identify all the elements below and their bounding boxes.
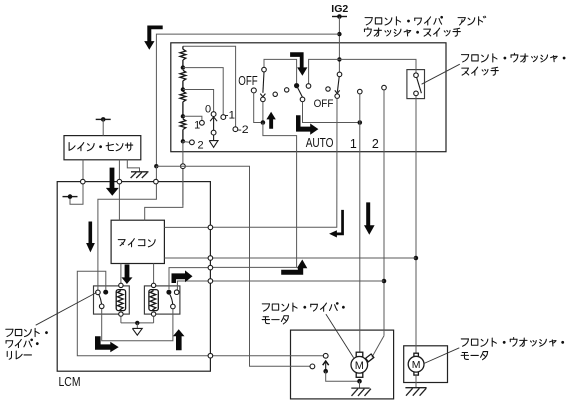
- wire micro to coil1: [120, 264, 122, 284]
- contact washer top: [414, 73, 419, 78]
- microcomputer box: [111, 220, 164, 263]
- front wiper motor box: [291, 330, 394, 399]
- contact speed 2: [382, 85, 387, 90]
- svg-text:-2: -2: [238, 124, 249, 136]
- contact washer bottom: [414, 91, 419, 96]
- flow arrow A11 right-up (to micro): [281, 260, 307, 275]
- svg-text:IG2: IG2: [331, 4, 348, 15]
- contact -2: [233, 127, 238, 132]
- wire sw1 lower to node: [262, 102, 264, 123]
- wiper motor M1 brush top: [356, 352, 363, 356]
- svg-text:M: M: [412, 359, 421, 371]
- label front wiper motor label line2: [262, 316, 288, 324]
- rain sensor antenna bar: [96, 118, 111, 120]
- ground washer motor: [405, 388, 426, 396]
- relay K1 contact NC: [96, 290, 101, 295]
- label front washer switch label line1: [461, 53, 565, 62]
- arrowhead sw3 arm: [335, 90, 340, 93]
- pin LCM right 4: [208, 279, 213, 284]
- relay K1 coil top pin: [119, 283, 123, 287]
- svg-text:0: 0: [205, 104, 211, 116]
- wire resistor net to micro: [145, 166, 183, 220]
- arrowhead park arm: [323, 361, 329, 365]
- label front wiper and washer switch (line1a): [365, 16, 442, 25]
- wire arm to out arrow: [213, 135, 215, 140]
- wire rain/IG net right: [156, 166, 310, 366]
- resistor section 2: [180, 70, 186, 81]
- contact park B: [310, 364, 315, 369]
- wire relay1 pivot to out pin: [77, 271, 323, 355]
- contact -1: [221, 115, 226, 120]
- wire volume arm: [213, 117, 215, 131]
- wire res s1: [182, 46, 184, 49]
- label front wiper and washer switch (line2): [364, 27, 460, 36]
- washer motor M2 body: [408, 356, 424, 372]
- svg-text:2: 2: [197, 139, 203, 151]
- wire relay2 NO to pin and speed2: [177, 281, 384, 290]
- switch arm sw2: [297, 86, 303, 98]
- arrowhead volume arm: [210, 117, 217, 121]
- label rain sensor label: [69, 143, 133, 151]
- ground wiper motor: [351, 388, 371, 396]
- relay K1 coil bottom pin: [119, 312, 123, 316]
- wire rain ground leg: [127, 160, 139, 172]
- wire micro to coil2: [153, 264, 155, 284]
- pin LCM right 5: [208, 353, 213, 358]
- svg-text:LCM: LCM: [59, 375, 81, 389]
- switch arm sw3: [337, 77, 339, 92]
- contact volume arm: [211, 130, 216, 135]
- wire tap3 to 1 contact: [183, 116, 202, 120]
- wire relay2 pivot to pin: [169, 268, 210, 290]
- IG2 terminal dot: [337, 14, 342, 19]
- label front washer switch label line2: [462, 67, 499, 75]
- label front wiper relay label line3: [7, 351, 31, 359]
- node res tap4: [181, 139, 185, 143]
- relay K2 arm: [170, 295, 173, 305]
- wiper motor M1 body: [351, 357, 368, 374]
- front washer switch box: [407, 70, 425, 99]
- node park common: [323, 369, 328, 374]
- ground rain sensor: [131, 172, 149, 178]
- wire micro out2 (washer sense): [164, 257, 416, 259]
- resistor section 3: [180, 91, 186, 102]
- wire IG2 down: [338, 17, 340, 73]
- wire resistor bottom out: [182, 141, 184, 205]
- wiper motor M1 brush high: [366, 354, 374, 362]
- wire coil2 bottom: [153, 316, 155, 323]
- shield terminal bar: [63, 196, 78, 198]
- IG2 terminal bar: [332, 16, 347, 18]
- relay K2 common contact: [171, 304, 176, 309]
- front wiper and washer switch assembly box: [171, 43, 446, 152]
- label front washer motor label line2: [461, 352, 487, 360]
- node washer/micro junction: [414, 256, 419, 261]
- open triangle volume out: [209, 141, 218, 148]
- arrowhead sw1 arm: [260, 94, 265, 97]
- node sw1 common: [261, 120, 266, 125]
- relay K1 arm: [99, 294, 102, 304]
- svg-text:OFF: OFF: [314, 98, 334, 110]
- wire rail left segment: [264, 59, 297, 83]
- label microcomputer label: [118, 239, 155, 247]
- wire relay1 NC up: [97, 290, 99, 292]
- node res tap3: [181, 114, 185, 118]
- wire rain pin1: [70, 160, 83, 205]
- wire tap1 to -1 contact: [183, 68, 223, 115]
- switch arm washer: [417, 77, 422, 93]
- rain sensor antenna dot: [101, 117, 106, 122]
- wire to ground triangle: [136, 323, 138, 328]
- node coil ground: [135, 321, 139, 325]
- wire res s3: [182, 102, 184, 117]
- node rain net junction: [154, 164, 158, 168]
- float contact b: [285, 88, 289, 92]
- node IG2 branch: [337, 32, 341, 36]
- node sw2 pivot: [294, 83, 299, 88]
- flow arrow A1 top-left elbow down: [144, 26, 163, 50]
- leader washer motor label: [424, 348, 459, 364]
- contact speed 1: [358, 89, 363, 94]
- node IG2 rail: [337, 57, 341, 61]
- wire speed1 to motor low brush: [359, 94, 361, 352]
- wire motor ground down: [359, 381, 361, 388]
- label front wiper relay label line1: [6, 328, 48, 336]
- resistor ladder top wire to -2 contact: [183, 46, 236, 127]
- leader washer switch label: [422, 64, 460, 84]
- flow arrow A12 down-right (relay1 out): [95, 336, 119, 352]
- wire speed2 down: [383, 90, 385, 336]
- relay K1 pivot dot: [103, 290, 108, 295]
- flow arrow A5 down-left into LCM: [329, 210, 344, 238]
- wire washer net down: [415, 96, 417, 353]
- contact 2: [190, 140, 195, 145]
- pin LCM right 1: [208, 225, 213, 230]
- wire rail right segment: [309, 59, 416, 83]
- front washer motor box: [404, 346, 448, 383]
- svg-text:-1: -1: [225, 109, 236, 121]
- contact sw1 OFF: [251, 88, 256, 93]
- pin LCM top 3: [154, 179, 159, 184]
- wire sw1 common to LCM pin AUTO: [210, 123, 296, 268]
- flow arrow A8 down (to relay1): [86, 222, 95, 253]
- svg-text:M: M: [355, 360, 364, 372]
- resistor section 1: [180, 49, 186, 60]
- pin LCM top 1: [81, 179, 86, 184]
- wire OFF net to LCM: [210, 98, 337, 227]
- wire park arm: [325, 363, 327, 372]
- flow arrow A6 down (speed feed): [364, 202, 375, 234]
- node motor ground: [357, 379, 362, 384]
- node speed2/relay junction: [382, 279, 387, 284]
- wire coil ground bus: [121, 322, 154, 324]
- wire rain pin2 to micro: [118, 160, 120, 220]
- rain sensor box: [64, 136, 141, 160]
- contact sw2 NC: [306, 84, 311, 89]
- wire tap2 to 0 contact: [183, 90, 214, 112]
- label front wiper and washer switch (line1b): [458, 16, 486, 25]
- relay K2 coil bottom pin: [151, 312, 155, 316]
- shield terminal dot: [68, 194, 73, 199]
- svg-text:2: 2: [372, 137, 379, 151]
- label front washer motor label line1: [461, 338, 563, 347]
- flow arrow A2 elbow down onto pivot: [290, 52, 307, 75]
- washer motor M2 brush top: [414, 353, 419, 357]
- relay K2 contact NO: [174, 290, 179, 295]
- contact 0: [211, 112, 216, 117]
- contact sw3 top: [337, 72, 342, 77]
- wire washer motor ground: [415, 375, 417, 387]
- wire sw1 OFF leg: [254, 93, 261, 123]
- contact sw3 lower: [335, 94, 340, 99]
- relay K1 box: [94, 286, 130, 314]
- wire micro in from rain net: [98, 166, 156, 290]
- node contact1 net: [358, 120, 363, 125]
- washer motor M2 brush bottom: [414, 371, 419, 375]
- float contact a: [273, 92, 277, 96]
- wire tap4 to 2 contact: [183, 141, 190, 144]
- wire washer sw feed: [415, 59, 417, 73]
- wire micro out1 (OFF sense): [164, 226, 210, 228]
- wire speed2 slant to high brush: [372, 336, 384, 358]
- LCM box: [57, 182, 210, 372]
- label front wiper motor label line1: [262, 303, 344, 312]
- switch arm sw1: [263, 72, 264, 93]
- wire relay commons U-link: [102, 309, 173, 341]
- svg-text:OFF: OFF: [238, 74, 258, 88]
- node res tap1: [181, 65, 185, 69]
- wire antenna to box: [102, 119, 104, 135]
- pin LCM right 2: [208, 256, 213, 261]
- flow arrow A10 up-right (relay2 out): [172, 270, 193, 283]
- flow arrow A7 down (rain to LCM): [106, 168, 119, 196]
- relay K2 pivot dot: [166, 290, 171, 295]
- node res tap2: [181, 87, 185, 91]
- label front wiper relay label line2: [6, 339, 38, 348]
- relay K2 coil top pin: [151, 283, 155, 287]
- pin LCM right 3: [208, 265, 213, 270]
- svg-text:1: 1: [350, 137, 357, 151]
- leader wiper motor label: [326, 314, 354, 358]
- relay K1 common contact: [99, 304, 104, 309]
- open triangle signal ground: [132, 328, 142, 335]
- crossing connector circle: [181, 164, 186, 169]
- wiper motor M1 brush bottom: [356, 373, 363, 377]
- svg-text:1: 1: [194, 120, 200, 132]
- leader relay label: [36, 293, 97, 326]
- flow arrow A13 up (relay2 common): [173, 329, 185, 350]
- wire park common to motor ground: [326, 371, 360, 381]
- wire res s4: [182, 130, 184, 142]
- relay K1 coil: [116, 290, 125, 311]
- contact sw1 lower: [261, 97, 266, 102]
- contact park A: [323, 353, 328, 358]
- flow arrow A9 down (to coil1): [122, 265, 133, 285]
- wire sw2 lower to contact 1: [303, 102, 358, 123]
- wire IG2 to rain/LCM net: [156, 34, 339, 166]
- flow arrow A4 elbow down-right: [296, 115, 318, 135]
- relay K2 coil: [149, 290, 158, 311]
- contact sw1 top: [262, 67, 267, 72]
- contact sw2 lower: [300, 97, 305, 102]
- wire coil1 bottom: [120, 316, 122, 323]
- wire res s2: [182, 81, 184, 90]
- svg-text:AUTO: AUTO: [306, 136, 334, 150]
- resistor section 4: [180, 119, 186, 130]
- float contact c: [326, 87, 330, 91]
- relay K2 box: [144, 286, 180, 314]
- pin LCM top 2: [117, 179, 122, 184]
- contact 1: [200, 120, 205, 125]
- flow arrow A3 up (AUTO): [266, 112, 275, 129]
